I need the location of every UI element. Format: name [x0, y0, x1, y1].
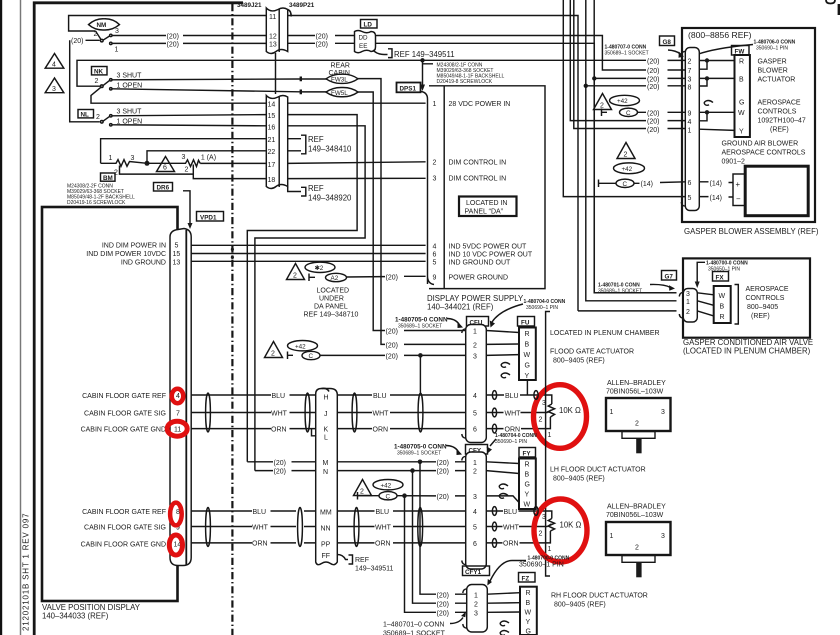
svg-text:1: 1 [474, 592, 478, 599]
svg-text:UNDER: UNDER [319, 296, 344, 303]
svg-text:3: 3 [131, 155, 135, 162]
svg-text:N: N [323, 469, 328, 476]
svg-text:LOCATED IN: LOCATED IN [466, 200, 508, 207]
svg-text:R: R [720, 314, 725, 321]
connector CFU column [466, 325, 487, 443]
svg-text:(20): (20) [647, 111, 659, 118]
svg-text:800–9405 (REF): 800–9405 (REF) [554, 602, 606, 609]
svg-text:W: W [524, 352, 531, 359]
svg-text:3489J21: 3489J21 [237, 2, 262, 9]
svg-text:6: 6 [433, 252, 437, 259]
highlight circle pin 14 [169, 535, 182, 555]
wire VPD15 to DPS6 [191, 253, 425, 255]
svg-text:2: 2 [94, 31, 98, 38]
svg-text:70BIN056L–103W: 70BIN056L–103W [606, 389, 664, 396]
svg-text:REF: REF [308, 184, 324, 193]
hook FY G [499, 484, 508, 489]
shield ellipse LD-right low [354, 508, 359, 547]
wire LD J right WHT [337, 412, 465, 414]
leader REF 149-349511 [373, 49, 392, 58]
break ticks rear-cabin wires [300, 77, 302, 95]
bead resistor upper [534, 391, 538, 400]
svg-text:ORN: ORN [503, 541, 519, 548]
svg-text:Y: Y [525, 492, 530, 499]
splice A2 [326, 273, 347, 282]
border left edge [0, 0, 2, 635]
svg-text:BM: BM [103, 175, 113, 182]
shield ellipse lower-left [206, 508, 211, 547]
svg-text:LOCATED IN PLENUM CHAMBER: LOCATED IN PLENUM CHAMBER [550, 330, 660, 337]
svg-text:AEROSPACE: AEROSPACE [746, 286, 789, 293]
svg-text:2: 2 [360, 489, 364, 496]
svg-text:BLU: BLU [272, 393, 286, 400]
wire row N [255, 470, 466, 472]
shield ellipse lower-mid [298, 508, 303, 547]
svg-text:(LOCATED IN PLENUM CHAMBER): (LOCATED IN PLENUM CHAMBER) [683, 347, 811, 356]
wire node to pin 22 [147, 151, 266, 164]
svg-text:(20): (20) [386, 275, 398, 282]
svg-text:11: 11 [269, 14, 276, 21]
svg-text:WHT: WHT [503, 524, 520, 531]
svg-text:(20): (20) [647, 84, 659, 91]
svg-text:IND GROUND: IND GROUND [121, 260, 166, 267]
connector spec M24308/2-2F [67, 184, 135, 207]
svg-text:2: 2 [96, 114, 100, 121]
svg-text:16: 16 [268, 125, 276, 132]
svg-text:R: R [739, 59, 744, 66]
label FY [519, 448, 536, 458]
bracket FX [735, 285, 739, 325]
svg-text:21: 21 [268, 137, 276, 144]
svg-text:350689–1 SOCKET: 350689–1 SOCKET [383, 631, 446, 635]
label DR6 [154, 183, 173, 192]
triangle flag 3 [45, 78, 64, 93]
wire corner to G7 pin2 [578, 310, 677, 312]
svg-text:ACTUATOR: ACTUATOR [758, 77, 796, 84]
svg-text:2: 2 [185, 167, 189, 174]
svg-text:11: 11 [174, 427, 181, 434]
svg-text:ORN: ORN [375, 541, 391, 548]
wire A2 to DPS pin9 [347, 275, 426, 278]
svg-text:9: 9 [688, 111, 692, 118]
svg-text:(20): (20) [71, 38, 83, 45]
label VPD1 [197, 212, 224, 222]
svg-text:LOCATED: LOCATED [317, 288, 350, 295]
svg-text:10K Ω: 10K Ω [560, 521, 582, 530]
wire row15 to roundabout [247, 115, 357, 462]
connector 3489J21/P21 lower shell [266, 96, 287, 189]
svg-text:R: R [526, 590, 531, 597]
leader DPS1 connector [423, 60, 434, 85]
connector LD column [316, 389, 338, 565]
wire G7-3 to W [697, 293, 713, 295]
svg-text:(14): (14) [641, 181, 653, 188]
wire bus to G8 pin4 [570, 0, 686, 121]
svg-text:R: R [525, 331, 530, 338]
wire NM contact 1 to pin 13 [112, 42, 266, 44]
hook FY Y [499, 494, 508, 499]
wire LD NN right [337, 526, 465, 528]
wire NK contact1 to FW5L [112, 89, 328, 92]
connector FZ block [520, 587, 537, 635]
svg-text:WHT: WHT [375, 524, 392, 531]
svg-text:2: 2 [635, 545, 639, 552]
splice FW3L [326, 74, 358, 83]
wire C to G8 pin9 [638, 111, 687, 113]
wire G8-2 to R [699, 60, 734, 62]
svg-text:70BIN056L–103W: 70BIN056L–103W [606, 512, 664, 519]
bead CFY row4 [492, 507, 496, 516]
jumper pin7 [699, 61, 707, 70]
svg-text:REF: REF [355, 557, 369, 564]
svg-text:FU: FU [521, 319, 530, 326]
svg-text:IND 5VDC POWER OUT: IND 5VDC POWER OUT [449, 243, 528, 250]
bead CFY row6 [492, 539, 496, 548]
svg-text:12: 12 [269, 34, 277, 41]
svg-text:2: 2 [433, 160, 437, 167]
wire CFU6 to resistor [486, 417, 550, 429]
highlight circle pin 11 [167, 421, 187, 436]
wire resistor2 to pin 17 [200, 162, 266, 164]
svg-text:140–344033 (REF): 140–344033 (REF) [42, 612, 109, 621]
svg-text:AEROSPACE CONTROLS: AEROSPACE CONTROLS [722, 150, 806, 157]
wire G7-1 to B [697, 301, 713, 306]
svg-text:LH FLOOR DUCT ACTUATOR: LH FLOOR DUCT ACTUATOR [550, 467, 646, 474]
wire FW5L to CFU1 [358, 92, 466, 331]
svg-text:B: B [526, 600, 531, 607]
svg-text:PANEL “DA”: PANEL “DA” [465, 209, 504, 216]
svg-text:(14): (14) [710, 180, 722, 187]
svg-text:(20): (20) [437, 601, 449, 608]
svg-text:CABIN FLOOR GATE GND: CABIN FLOOR GATE GND [81, 542, 166, 549]
resistor R1 10K [539, 400, 555, 439]
svg-text:350689–1 SOCKET: 350689–1 SOCKET [398, 324, 442, 330]
svg-text:800–9405 (REF): 800–9405 (REF) [553, 476, 605, 483]
svg-text:4: 4 [473, 393, 477, 400]
label CFU [467, 317, 489, 327]
svg-text:A2: A2 [331, 275, 339, 282]
svg-text:28 VDC POWER IN: 28 VDC POWER IN [449, 101, 511, 108]
connector DD/EE splice [355, 31, 376, 53]
label DPS1 [397, 83, 421, 93]
wire CFY6 to resistor low [486, 531, 550, 543]
svg-text:350690–1 PIN: 350690–1 PIN [519, 562, 564, 569]
svg-text:3: 3 [688, 77, 692, 84]
potentiometer Allen-Bradley upper [606, 380, 671, 453]
svg-text:B: B [525, 342, 530, 349]
wire pin14 to DPS pin1 [288, 102, 426, 104]
svg-text:C: C [623, 181, 628, 188]
svg-text:18: 18 [268, 177, 276, 184]
leader G7 socket [650, 284, 671, 287]
wire NL contact1 to pin 16 [112, 125, 266, 126]
triangle flag 6 [157, 157, 175, 172]
wire CFY2 to B [486, 471, 519, 474]
wire C lower to G8 pin6 [604, 182, 686, 184]
connector spec M24308/2-1F [437, 63, 505, 86]
hook FW G [704, 101, 713, 106]
svg-text:G: G [525, 482, 530, 489]
svg-text:3: 3 [661, 533, 665, 540]
svg-text:6: 6 [163, 165, 167, 172]
svg-text:DA PANEL: DA PANEL [314, 304, 348, 311]
splice +42 G8 upper [610, 95, 640, 105]
wire C low to CFY3 [363, 495, 466, 497]
svg-text:1: 1 [473, 460, 477, 467]
svg-text:7: 7 [688, 68, 692, 75]
svg-text:−: − [736, 195, 741, 204]
svg-text:DR6: DR6 [157, 185, 170, 192]
svg-text:GASPER: GASPER [758, 59, 787, 66]
svg-text:5: 5 [473, 411, 477, 418]
splice +42 G8 lower [614, 163, 645, 174]
wire VPD8 BLU row low [191, 510, 315, 512]
wire G8-5 motor [699, 196, 733, 198]
svg-text:FX: FX [716, 274, 725, 281]
svg-text:Y: Y [739, 129, 744, 136]
highlight circle pin 4 [172, 389, 184, 403]
shield ellipse pre-CFU [418, 393, 423, 432]
svg-text:C: C [309, 353, 314, 360]
highlight circle resistor lower [534, 499, 587, 562]
svg-text:2: 2 [293, 273, 297, 280]
wire wipers to pin 18 [193, 165, 265, 179]
wire pin13 to EE [288, 42, 355, 44]
leader G8 socket [668, 50, 681, 54]
jumper pin8 [699, 78, 707, 86]
svg-text:3: 3 [661, 409, 665, 416]
svg-text:1: 1 [610, 409, 614, 416]
switch NM [89, 19, 120, 54]
svg-text:1: 1 [688, 127, 692, 134]
svg-text:Y: Y [525, 373, 530, 380]
svg-text:J: J [324, 411, 328, 418]
svg-text:LD: LD [364, 22, 373, 29]
svg-text:1: 1 [686, 299, 690, 306]
shield ellipse upper LD-right [352, 393, 357, 432]
svg-text:140–344021 (REF): 140–344021 (REF) [427, 303, 494, 312]
svg-text:(20): (20) [386, 329, 398, 336]
svg-text:1: 1 [433, 101, 437, 108]
wire CFU3 to W [486, 354, 519, 357]
wire VPD13 to DPS5 [191, 260, 425, 262]
svg-text:DIM CONTROL IN: DIM CONTROL IN [449, 160, 507, 167]
connector FU block [519, 328, 536, 381]
svg-text:149–348920: 149–348920 [308, 194, 352, 203]
svg-text:800–9405 (REF): 800–9405 (REF) [553, 358, 605, 365]
svg-text:7: 7 [176, 411, 180, 418]
svg-text:(14): (14) [710, 195, 722, 202]
svg-text:10K Ω: 10K Ω [559, 406, 581, 415]
bracket REF 149-348410 [288, 135, 306, 154]
splice +42 low [373, 480, 403, 490]
wire VPD5 to DPS4 [191, 244, 425, 246]
highlight circle resistor upper [534, 385, 587, 449]
svg-text:NM: NM [97, 22, 107, 29]
wire CFY4 to resistor low [486, 511, 552, 519]
resistor R2 10K [539, 514, 555, 553]
svg-text:1–480701–0 CONN: 1–480701–0 CONN [383, 622, 445, 629]
jumper K-L [312, 429, 316, 436]
svg-text:AEROSPACE: AEROSPACE [758, 100, 801, 107]
wire NK contact3 to FW3L [112, 78, 328, 81]
svg-text:H: H [324, 395, 329, 402]
wire row M [247, 461, 465, 463]
svg-text:(REF): (REF) [770, 127, 789, 134]
svg-text:4: 4 [688, 119, 692, 126]
svg-text:8: 8 [688, 84, 692, 91]
svg-text:21202101B SHT 1 REV 097: 21202101B SHT 1 REV 097 [22, 513, 31, 631]
triangle flag 4 [45, 54, 64, 69]
svg-text:CONTROLS: CONTROLS [758, 109, 797, 116]
shield tick G8 upper [602, 109, 608, 117]
wire CFY1 to R [486, 462, 519, 464]
wire pin11 to corner [288, 16, 578, 311]
svg-text:VPD1: VPD1 [200, 214, 217, 221]
wire bus to G8 pin8 [586, 85, 686, 87]
wire NK common to G8 pin 2 [77, 60, 686, 86]
svg-text:5: 5 [473, 525, 477, 532]
svg-text:2: 2 [539, 417, 543, 424]
connector CFY1 column [467, 585, 488, 633]
svg-text:W: W [524, 502, 531, 509]
svg-text:4: 4 [52, 62, 56, 69]
svg-text:FW5L: FW5L [331, 90, 348, 97]
wire DD to corner [376, 36, 687, 71]
label G8 [660, 36, 675, 46]
svg-text:2: 2 [635, 421, 639, 428]
svg-text:IND GROUND OUT: IND GROUND OUT [449, 260, 512, 267]
leader to CFU [447, 319, 459, 325]
svg-text:✱2: ✱2 [315, 265, 324, 272]
svg-text:NN: NN [321, 526, 331, 533]
wire bus to G7 pin1 [586, 0, 677, 301]
svg-text:22: 22 [268, 149, 276, 156]
leader G8 pin conn [697, 45, 753, 55]
label FZ [519, 573, 536, 583]
wire LD MM right [337, 510, 465, 512]
triangle flag 2 (A2) [287, 264, 305, 280]
svg-text:350690–1 PIN: 350690–1 PIN [495, 439, 527, 445]
svg-text:4: 4 [473, 509, 477, 516]
wire shell link [275, 53, 277, 94]
svg-text:+: + [736, 180, 741, 189]
svg-text:1: 1 [548, 432, 552, 439]
svg-text:3489P21: 3489P21 [289, 2, 315, 9]
wire box top to pin 21 [101, 139, 266, 164]
bead resistor lower [534, 507, 538, 516]
svg-text:REF 149–348710: REF 149–348710 [304, 312, 359, 319]
svg-text:C: C [626, 110, 631, 117]
bead CFU row4 [492, 391, 496, 400]
VPD1 display box [42, 207, 178, 601]
gasper motor [745, 166, 808, 216]
wire EE to corner [376, 43, 677, 292]
svg-text:149–349511: 149–349511 [355, 566, 394, 573]
svg-text:(20): (20) [647, 68, 659, 75]
wire VPD7 WHT row [191, 412, 315, 414]
connector FY block [519, 459, 536, 510]
svg-text:(20): (20) [386, 354, 398, 361]
svg-text:1: 1 [115, 47, 119, 54]
label FX [713, 272, 729, 282]
wire pin11 feed [69, 16, 266, 32]
svg-text:MM: MM [320, 510, 332, 517]
svg-text:(20): (20) [647, 59, 659, 66]
bulkhead dash-dot line [231, 4, 233, 635]
svg-text:800–9405: 800–9405 [747, 304, 778, 311]
svg-text:+42: +42 [617, 98, 628, 105]
label FU [518, 317, 535, 327]
wire CFU1 to R [486, 331, 519, 333]
wire LD PP right [337, 542, 465, 544]
connector G7 column [683, 289, 697, 323]
bead CFU row5 [492, 408, 496, 417]
wire pin18 to DPS pin3 [288, 177, 426, 179]
wire bus to G7 pin3 [594, 0, 676, 293]
jumper pin4 [699, 112, 707, 121]
svg-text:4: 4 [433, 243, 437, 250]
svg-text:15: 15 [173, 251, 181, 258]
svg-text:EE: EE [359, 43, 367, 50]
svg-text:BLU: BLU [253, 509, 267, 516]
partial zone glyph top right [826, 0, 835, 4]
wire CFY1-2 to B [487, 602, 520, 605]
hook FZ G [500, 631, 509, 635]
svg-text:1-480705-0 CONN: 1-480705-0 CONN [394, 444, 447, 451]
node junction dot [145, 161, 150, 166]
svg-text:1: 1 [473, 329, 477, 336]
wire VPD4 BLU row [191, 394, 315, 396]
svg-text:W: W [738, 110, 745, 117]
wire CFY1-3 to W [487, 611, 520, 613]
switch NL [78, 109, 142, 126]
wire NM feed bracket [70, 40, 100, 122]
gasper blower assembly box [682, 28, 815, 222]
svg-text:(20): (20) [647, 119, 659, 126]
border inner rule [20, 0, 22, 635]
wire bus to G8 pin5 [563, 0, 686, 197]
svg-text:(20): (20) [437, 460, 449, 467]
svg-text:+42: +42 [622, 166, 633, 173]
connector CFY column [466, 452, 487, 569]
svg-text:BLU: BLU [504, 509, 518, 516]
svg-text:WHT: WHT [252, 524, 269, 531]
svg-text:2: 2 [271, 351, 275, 358]
shield ellipse pre-CFY low [418, 508, 423, 547]
svg-text:(20): (20) [167, 34, 179, 41]
svg-text:3: 3 [115, 28, 119, 35]
svg-text:G: G [526, 629, 531, 635]
svg-text:REAR: REAR [331, 63, 350, 70]
bracket REF 149-348920 [288, 187, 306, 197]
located in panel DA box [459, 197, 517, 217]
gasper conditioned air valve box [683, 258, 810, 337]
svg-text:(20): (20) [437, 469, 449, 476]
shield tick C mid [288, 352, 294, 360]
svg-text:DIM CONTROL IN: DIM CONTROL IN [449, 176, 507, 183]
svg-text:BLOWER: BLOWER [758, 68, 788, 75]
wire CFU4 to resistor [486, 395, 552, 404]
svg-text:K: K [324, 427, 329, 434]
svg-text:W: W [525, 610, 532, 617]
node branch M [418, 460, 423, 465]
svg-text:CONTROLS: CONTROLS [746, 295, 785, 302]
motor terminal block [733, 174, 745, 206]
svg-text:GROUND AIR BLOWER: GROUND AIR BLOWER [722, 141, 799, 148]
splice C G8 lower [616, 179, 634, 188]
splice C mid [302, 351, 320, 360]
